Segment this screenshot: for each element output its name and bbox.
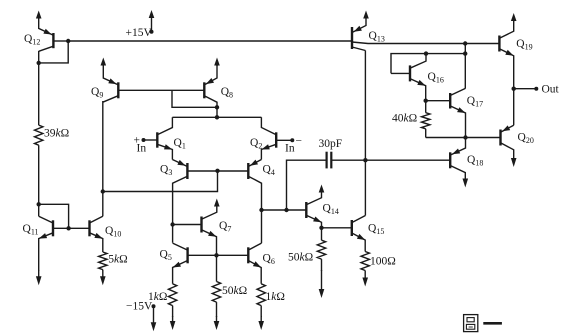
svg-text:1kΩ: 1kΩ xyxy=(266,291,285,303)
svg-text:5kΩ: 5kΩ xyxy=(108,254,127,266)
svg-text:50kΩ: 50kΩ xyxy=(288,252,313,264)
svg-text:+15V: +15V xyxy=(126,27,153,39)
svg-text:In: In xyxy=(137,143,147,155)
svg-text:50kΩ: 50kΩ xyxy=(222,285,247,297)
svg-text:−15V: −15V xyxy=(126,301,153,313)
svg-text:Out: Out xyxy=(542,84,560,96)
svg-text:−: − xyxy=(296,136,303,148)
svg-text:In: In xyxy=(285,143,295,155)
svg-text:39kΩ: 39kΩ xyxy=(44,128,69,140)
svg-text:40kΩ: 40kΩ xyxy=(392,113,417,125)
svg-text:30pF: 30pF xyxy=(319,138,343,150)
svg-text:100Ω: 100Ω xyxy=(370,256,396,268)
